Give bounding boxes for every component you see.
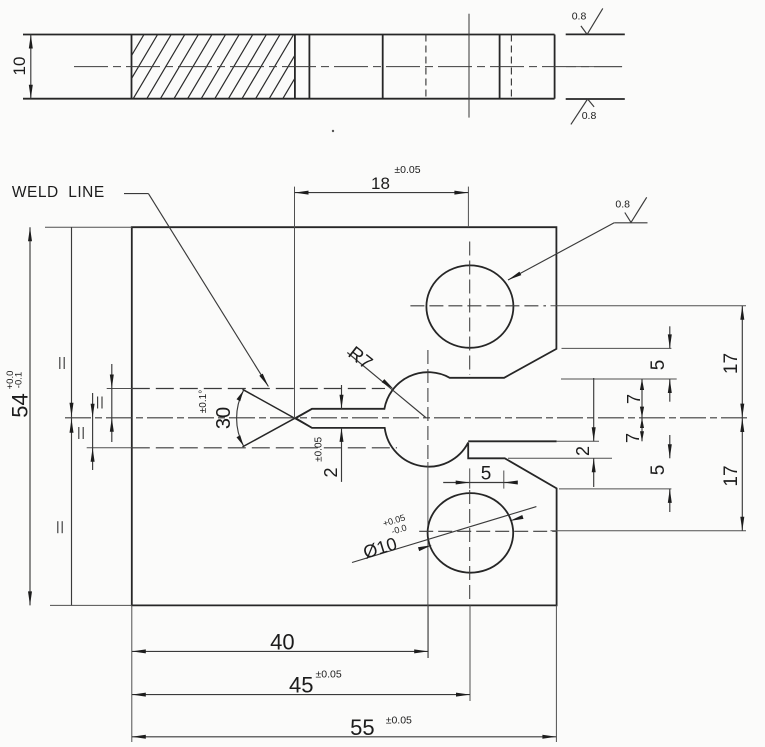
- svg-text:±0.05: ±0.05: [386, 715, 412, 727]
- svg-text:40: 40: [270, 629, 294, 654]
- svg-text:45: 45: [289, 673, 313, 698]
- svg-text:17: 17: [721, 465, 742, 486]
- svg-text:17: 17: [721, 353, 742, 374]
- svg-text:±0.05: ±0.05: [394, 164, 420, 176]
- svg-text:2: 2: [321, 467, 341, 477]
- svg-text:7: 7: [623, 433, 643, 443]
- svg-text:10: 10: [10, 57, 29, 76]
- svg-text:0.8: 0.8: [582, 110, 597, 122]
- svg-text:54: 54: [8, 393, 33, 417]
- svg-text:0.8: 0.8: [572, 11, 587, 23]
- svg-text:5: 5: [648, 360, 669, 371]
- svg-text:-0.1: -0.1: [14, 372, 25, 388]
- svg-text:2: 2: [573, 446, 593, 456]
- svg-text:±0.1°: ±0.1°: [198, 390, 209, 413]
- svg-text:7: 7: [624, 394, 644, 404]
- svg-text:±0.05: ±0.05: [313, 436, 324, 461]
- svg-text:0.8: 0.8: [615, 198, 630, 210]
- svg-text:5: 5: [648, 465, 669, 476]
- svg-text:18: 18: [371, 174, 390, 193]
- svg-text:5: 5: [481, 464, 492, 485]
- svg-text:55: 55: [350, 715, 374, 740]
- svg-text:WELD LINE: WELD LINE: [12, 184, 105, 201]
- svg-text:±0.05: ±0.05: [315, 668, 341, 680]
